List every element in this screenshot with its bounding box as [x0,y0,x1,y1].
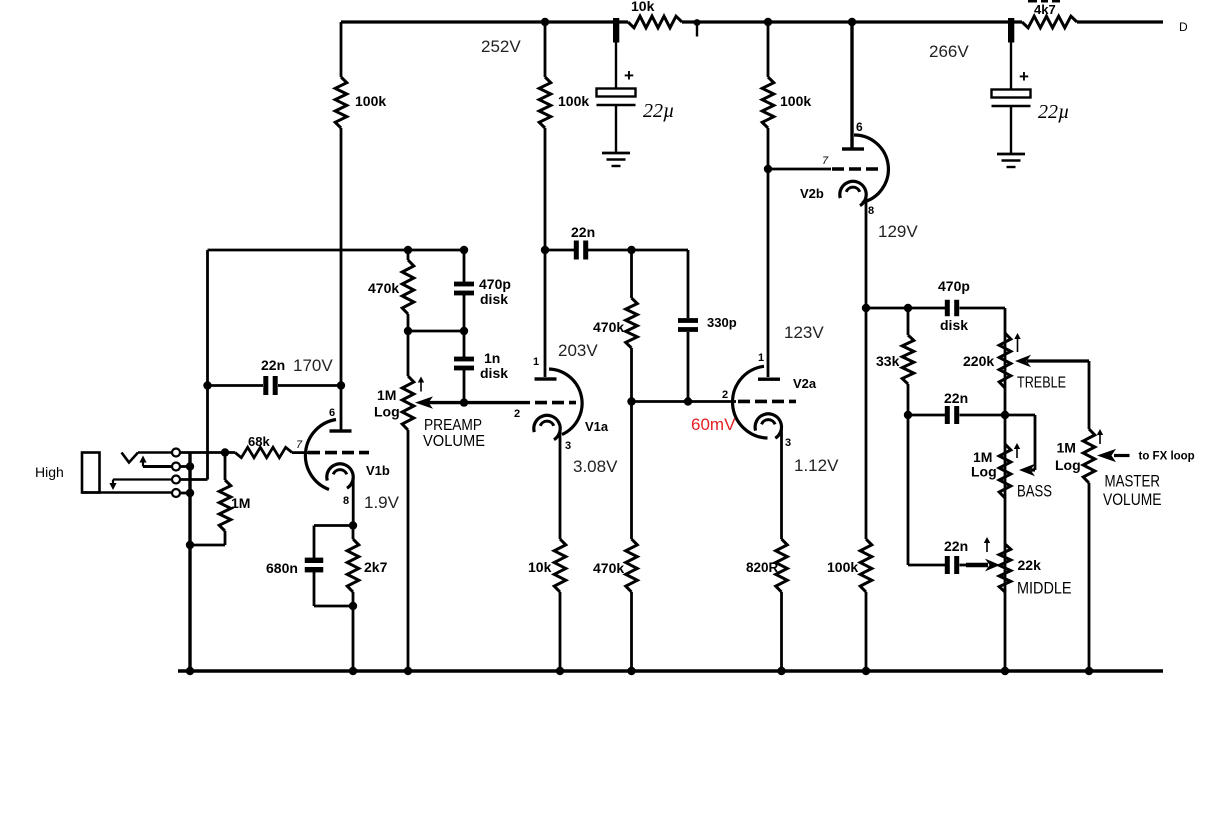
svg-text:6: 6 [329,407,335,419]
svg-text:2: 2 [514,408,520,420]
svg-text:1M: 1M [231,495,250,511]
svg-text:470p: 470p [479,276,511,292]
svg-text:MIDDLE: MIDDLE [1017,579,1072,598]
svg-text:VOLUME: VOLUME [1103,491,1162,509]
svg-text:V2a: V2a [793,376,817,391]
svg-text:BASS: BASS [1017,483,1052,501]
svg-text:123V: 123V [784,323,824,342]
svg-text:V2b: V2b [800,186,824,201]
svg-text:1: 1 [533,356,539,368]
svg-text:22n: 22n [261,357,285,373]
svg-text:to FX loop: to FX loop [1139,451,1195,463]
svg-text:60mV: 60mV [691,415,736,434]
svg-text:170V: 170V [293,356,333,375]
svg-text:100k: 100k [827,559,858,575]
svg-text:V1a: V1a [585,419,609,434]
svg-text:680n: 680n [266,560,298,576]
svg-text:VOLUME: VOLUME [423,433,485,450]
svg-text:disk: disk [940,317,968,333]
svg-text:8: 8 [343,495,349,507]
svg-text:10k: 10k [528,559,552,575]
svg-text:2: 2 [722,389,728,401]
svg-text:470p: 470p [938,278,970,294]
svg-text:129V: 129V [878,222,918,241]
svg-text:10k: 10k [631,0,655,14]
svg-text:1M: 1M [1057,440,1076,456]
svg-text:1.12V: 1.12V [794,456,839,475]
svg-text:8: 8 [868,205,874,217]
svg-text:330p: 330p [707,315,737,330]
svg-text:+: + [624,66,634,85]
svg-text:220k: 220k [963,353,994,369]
svg-text:D: D [1179,20,1188,34]
svg-text:disk: disk [480,291,508,307]
svg-text:Log: Log [1055,457,1081,473]
svg-text:470k: 470k [593,319,624,335]
svg-text:MASTER: MASTER [1105,472,1161,490]
svg-text:203V: 203V [558,341,598,360]
svg-text:22n: 22n [944,538,968,554]
svg-text:6: 6 [856,120,863,134]
svg-text:22k: 22k [1018,557,1042,573]
svg-text:22µ: 22µ [1038,101,1070,123]
svg-text:Log: Log [374,404,400,420]
svg-text:1M: 1M [377,387,396,403]
svg-text:22n: 22n [944,390,968,406]
svg-text:1: 1 [758,352,764,364]
svg-text:7: 7 [822,155,829,167]
svg-text:+: + [1019,67,1029,86]
svg-text:470k: 470k [368,280,399,296]
svg-text:High: High [35,464,64,480]
svg-text:100k: 100k [558,93,589,109]
svg-text:470k: 470k [593,560,624,576]
svg-text:22n: 22n [571,224,595,240]
svg-text:22µ: 22µ [643,100,675,122]
svg-text:100k: 100k [780,93,811,109]
svg-text:4k7: 4k7 [1034,2,1056,17]
svg-text:266V: 266V [929,42,969,61]
svg-text:3: 3 [785,437,791,449]
svg-text:1.9V: 1.9V [364,493,400,512]
svg-text:V1b: V1b [366,463,390,478]
svg-text:252V: 252V [481,37,521,56]
svg-text:100k: 100k [355,93,386,109]
svg-text:820R: 820R [746,560,779,575]
svg-text:68k: 68k [248,434,270,449]
svg-text:disk: disk [480,365,508,381]
svg-text:3: 3 [565,440,571,452]
svg-text:2k7: 2k7 [364,559,388,575]
svg-text:1n: 1n [484,350,500,366]
svg-text:TREBLE: TREBLE [1017,375,1066,392]
svg-text:3.08V: 3.08V [573,457,618,476]
svg-text:PREAMP: PREAMP [424,417,482,434]
svg-text:7: 7 [296,439,303,451]
svg-text:Log: Log [971,464,997,480]
svg-text:33k: 33k [876,353,900,369]
